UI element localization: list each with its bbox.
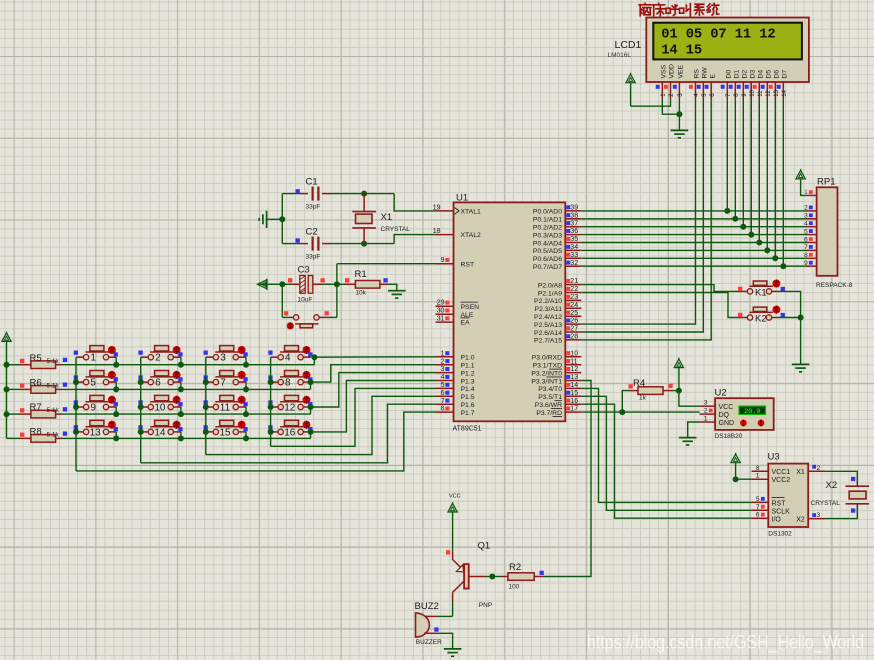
crystal X1 [363,194,365,212]
button 1 indicators [74,351,78,355]
wire R1 to ground [380,283,388,285]
power terminal U3 VCC [731,454,740,463]
ground below LCD [671,129,689,131]
node D1 junction [732,216,738,222]
wire P3.3 to R2 [543,381,591,577]
power terminal LCD VDD [626,74,635,83]
wire LCD D2 vertical [742,99,744,227]
button 16 indicators [268,425,272,429]
U1 left pin stubs [436,210,454,212]
crystal X2 [846,485,870,487]
button 6 indicators [138,375,142,379]
button 5 indicators [74,375,78,379]
keypad row1 to P1.0 [311,354,317,360]
U2 pin stubs [700,405,716,407]
wire P3.5 to DS1302 SCLK [581,396,751,510]
button 14 terminals [141,431,148,433]
buzzer BUZ2 [416,613,430,637]
node C3 left junction [279,281,285,287]
wire P2.5 to LCD RS [581,99,695,325]
button 10 actuator [173,396,181,404]
node D5 junction [764,247,770,253]
ground below R1 [388,290,406,292]
button 8 cap [280,376,304,378]
wire LCD D0 vertical [726,99,728,211]
keypad row4 to P1.3 [308,429,314,435]
node common bus2 [4,386,10,392]
node D4 junction [756,240,762,246]
button 12 cap [280,401,304,403]
keypad col3 to P1.5 [206,396,436,454]
ground left of C1C2 [266,211,268,228]
wire RST row to U1 [337,263,436,265]
capacitor C3 polarized [300,276,313,294]
wire to U3 VCC2 [736,478,752,480]
wire P2.0 to K1 [581,285,741,292]
power terminal keypad common [2,333,11,342]
wire C1 row to XTAL1 [282,193,300,195]
button 6 actuator [173,371,181,379]
node common bus3 [4,411,10,417]
node D6 junction [772,255,778,261]
node C3 right junction [334,281,340,287]
button 1 actuator [108,346,116,354]
wire R4 right to VCC and U2 VCC [663,390,671,392]
button 3 cap [215,351,239,353]
button 13 indicators [74,425,78,429]
wire VSS down [662,99,679,115]
wire P2.6 to LCD RW [581,99,703,333]
node C1 X1 junction [361,191,367,197]
button 1 terminals [76,356,83,358]
button 4 terminals [271,356,278,358]
button 11 cap [215,401,239,403]
power terminal above R4 [674,359,683,368]
button 11 actuator [238,396,246,404]
button 3 actuator [238,346,246,354]
power terminal left of C3 [257,280,266,289]
RP1 pin stubs [808,194,816,196]
node VSS VEE junction [676,111,682,117]
button 11 indicators [204,400,208,404]
row bus 1 [62,364,314,366]
wire K1 right [772,290,777,292]
button 7 actuator [238,371,246,379]
button 7 terminals [206,381,213,383]
wire LCD D5 vertical [766,99,768,251]
node K1 K2 junction [798,315,804,321]
microcontroller U1 AT89C51 body [454,202,566,421]
button 15 terminals [206,431,213,433]
wire P2.7 to LCD E [581,99,711,340]
button 13 actuator [108,421,116,429]
rtc U3 DS1302 body [768,464,808,527]
button 2 actuator [173,346,181,354]
button 16 terminals [271,431,278,433]
wire R4 left [622,391,630,413]
button 10 cap [150,401,174,403]
wire P3.6 to DS1302 IO [581,404,751,518]
node common bus1 [4,362,10,368]
wire Q1 base to R2 [469,576,485,578]
wire P0.6 to RP1 pin8 [581,257,806,259]
wire LCD D3 vertical [750,99,752,235]
svg-text:https://blog.csdn.net/GSH_Hell: https://blog.csdn.net/GSH_Hello_World [587,632,864,654]
wire X1 to crystal X2 [825,471,857,486]
row bus 3 [62,413,311,415]
node U3 VCC junction [733,476,739,482]
sensor U2 DS18B20 body [715,398,774,430]
U3 right pin stubs [808,470,825,472]
button 14 indicators [138,425,142,429]
capacitor C1 [312,187,314,201]
wire C2 row to XTAL2 [282,243,300,245]
resistor R2 100 [508,573,534,581]
node C1C2 gnd junction [279,216,285,222]
wire VEE to ground [678,99,680,131]
button 16 cap [280,426,304,428]
button 5 actuator [108,371,116,379]
node DQ R4 junction [619,409,625,415]
node C2 X1 junction [361,241,367,247]
wire P2.1 to K2 [581,293,741,318]
wire P0.3 to RP1 pin5 [581,234,806,236]
resistor R4 1k [638,387,663,395]
resistor R7 5.1k [7,413,20,415]
button 15 cap [215,426,239,428]
button 1 cap [86,351,110,353]
title text 病床呼叫系统 [639,3,651,15]
button 2 indicators [138,351,142,355]
button 9 terminals [76,406,83,408]
button 12 terminals [271,406,278,408]
button 8 actuator [303,371,311,379]
button 3 indicators [204,351,208,355]
button 6 terminals [141,381,148,383]
button 11 terminals [206,406,213,408]
button 12 actuator [303,396,311,404]
button 9 indicators [74,400,78,404]
row bus 2 [62,388,311,390]
wire R2 right [534,576,543,578]
button 4 indicators [268,351,272,355]
button 10 indicators [138,400,142,404]
U2 adjust buttons [740,420,747,427]
row bus 4 [62,437,311,439]
power terminal RP1 pin1 [796,170,805,179]
wire P0.0 to RP1 pin2 [581,210,806,212]
capacitor C2 [312,237,314,251]
keypad row2 to P1.1 [308,379,314,385]
button 9 cap [86,401,110,403]
wire Q1 collector to buzzer [452,601,454,617]
resistor R5 5.1k [7,364,20,366]
button 8 terminals [271,381,278,383]
wire P0.4 to RP1 pin6 [581,242,806,244]
wire VDD to power [631,99,671,107]
node D0 junction [724,208,730,214]
button 8 indicators [268,375,272,379]
reset button (inverted) [293,315,298,320]
button 13 terminals [76,431,83,433]
wire P3.7 to DS18B20 DQ [581,411,699,413]
wire buzzer bottom to ground [424,632,437,634]
resistor R1 [355,281,380,289]
keypad common left vertical [6,341,8,438]
button 5 cap [86,376,110,378]
button 13 cap [86,426,110,428]
button 10 terminals [141,406,148,408]
ground below K1 K2 [792,363,810,365]
wire P0.7 to RP1 pin9 [581,265,806,267]
button 3 terminals [206,356,213,358]
button 9 actuator [108,396,116,404]
button 6 cap [150,376,174,378]
button 5 terminals [76,381,83,383]
wire RP1 pin1 to power [801,179,809,196]
node D7 junction [780,263,786,269]
wire X2 to crystal X2 [825,504,857,518]
button K1 [750,285,773,287]
button 4 actuator [303,346,311,354]
transistor Q1 PNP [452,552,454,560]
wire P0.1 to RP1 pin3 [581,218,806,220]
keypad col2 to P1.6 [141,404,436,463]
wire P0.2 to RP1 pin4 [581,226,806,228]
wire C1-C2 left vertical [281,194,283,244]
U2 temperature display [739,406,766,414]
wire RST net vertical [336,264,338,318]
wire LCD D6 vertical [774,99,776,259]
U3 left pin stubs [752,470,769,472]
wire P3.4 to DS1302 RST [581,388,751,502]
keypad col1 to P1.7 [76,412,436,471]
button 7 indicators [204,375,208,379]
button 2 cap [150,351,174,353]
button 16 actuator [303,421,311,429]
button 2 terminals [141,356,148,358]
button 14 actuator [173,421,181,429]
node D3 junction [748,232,754,238]
wire K2 right [772,317,777,319]
wire LCD D1 vertical [734,99,736,219]
button 12 indicators [268,400,272,404]
LCD1 LM016L body [646,18,809,83]
wire P0.5 to RP1 pin7 [581,249,806,251]
button K2 [750,311,773,313]
wire U2 GND to ground [688,422,700,437]
node base junction [489,574,495,580]
button 7 cap [215,376,239,378]
U1 right pin stubs [565,210,581,212]
LCD pin stubs and numbers [661,82,663,99]
node D2 junction [740,224,746,230]
resistor R6 5.1k [7,388,20,390]
keypad row3 to P1.2 [308,404,314,410]
keypad col4 to P1.4 [271,388,436,446]
button 14 cap [150,426,174,428]
resistor R8 5.1k [7,437,20,439]
wire LCD D4 vertical [758,99,760,243]
keypad right drops columns 1-3 [115,357,117,365]
keypad column verticals [75,357,77,471]
resistor pack RP1 RESPACK-8 body [817,187,838,275]
button 15 actuator [238,421,246,429]
button 4 cap [280,351,304,353]
button 15 indicators [204,425,208,429]
wire LCD D7 vertical [782,99,784,267]
wire C3 row [259,283,283,285]
reset button wires [281,284,283,317]
